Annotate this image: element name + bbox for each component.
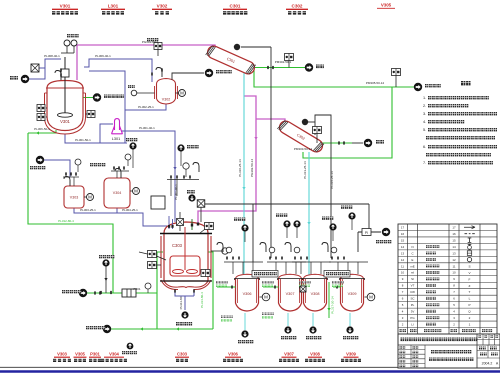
svg-text:M: M	[369, 295, 373, 300]
gauge boxes C303 right	[200, 223, 228, 277]
magenta line C302 inlet and C303 reflux	[198, 96, 285, 228]
V309 drain to centrifuge	[343, 313, 358, 339]
V301 temperature box right	[86, 111, 96, 118]
svg-text:V306: V306	[228, 352, 238, 357]
V302 vent hook	[156, 68, 162, 78]
top label C301	[223, 4, 247, 15]
V302 steam point	[128, 85, 155, 96]
svg-text:1.: 1.	[423, 96, 426, 100]
mother liquor labels between V306 V307	[262, 313, 274, 319]
svg-text:17: 17	[401, 225, 405, 229]
svg-text:4.: 4.	[423, 120, 426, 124]
notes list	[423, 96, 497, 165]
svg-text:mI: mI	[411, 271, 414, 275]
svg-text:C: C	[411, 251, 413, 255]
svg-text:PL312-80-4: PL312-80-4	[58, 219, 74, 223]
V306 inlet line	[216, 281, 236, 289]
bottom label P301	[89, 352, 101, 363]
bottom label V306	[223, 352, 243, 363]
blue line V302 bottom to pump suction	[125, 104, 166, 110]
green jacket lines C303	[157, 252, 213, 329]
blue line V303 V304 bottoms to C303	[74, 206, 167, 226]
mother liquor label under V306 line	[221, 316, 233, 322]
svg-text:PL302-25-1: PL302-25-1	[138, 105, 154, 109]
svg-text:15: 15	[401, 238, 405, 242]
svg-text:CW: CW	[410, 290, 415, 294]
pump L301	[112, 119, 123, 141]
svg-text:PI: PI	[365, 231, 368, 235]
black vacuum header	[205, 204, 369, 232]
svg-text:P: P	[468, 303, 470, 307]
green riser to scrubber	[303, 87, 392, 158]
svg-text:PM303-50-14: PM303-50-14	[294, 147, 313, 151]
C302 gauge	[302, 119, 308, 125]
tank V308	[302, 274, 328, 311]
pump P301	[122, 283, 151, 297]
svg-text:PL301-40-1: PL301-40-1	[174, 184, 178, 200]
svg-text:V305: V305	[381, 3, 392, 8]
tank V309	[339, 274, 365, 311]
svg-text:V302: V302	[162, 98, 170, 102]
svg-text:N: N	[411, 245, 413, 249]
svg-text:5.: 5.	[423, 128, 426, 132]
condenser C301	[205, 44, 256, 76]
green line C301 to scrubber header	[254, 68, 414, 87]
svg-text:VT: VT	[411, 284, 415, 288]
svg-text:10: 10	[401, 271, 405, 275]
svg-text:17: 17	[452, 225, 456, 229]
bottom label V303	[53, 352, 71, 363]
green vent line V301 to drain	[83, 97, 93, 99]
V302 agitator motor	[176, 90, 186, 97]
svg-text:PL314-80-4: PL314-80-4	[200, 292, 204, 308]
C303 vapor outlet box to header	[197, 200, 205, 222]
svg-text:PL304-25-1: PL304-25-1	[122, 208, 138, 212]
label box between V306 V307	[252, 271, 278, 278]
svg-text:C303: C303	[172, 243, 183, 248]
svg-text:PL301-50-1: PL301-50-1	[75, 138, 91, 142]
title block	[398, 334, 500, 368]
svg-text:L301: L301	[108, 4, 119, 9]
svg-text:3.: 3.	[423, 112, 426, 116]
svg-text:PM302-50-1: PM302-50-1	[275, 60, 292, 64]
cyan condensate line C302 to V308	[307, 152, 310, 277]
crystallizer C303	[160, 222, 212, 290]
svg-text:PL306-50-4: PL306-50-4	[34, 127, 50, 131]
black vacuum drop to V309	[357, 232, 359, 252]
V308 drain to centrifuge	[306, 313, 321, 339]
V306 top valve group	[217, 243, 263, 275]
distilled water group right of funnel	[167, 144, 199, 179]
svg-text:PL303-25-1: PL303-25-1	[80, 208, 96, 212]
feed label between tanks	[90, 163, 105, 166]
svg-text:M: M	[180, 91, 184, 96]
svg-text:PL316-25-14: PL316-25-14	[330, 171, 334, 189]
bottom label V309	[341, 352, 361, 363]
magenta vapor line V301 to C301	[77, 45, 215, 80]
steam heater branch	[99, 255, 114, 294]
top label V302	[152, 4, 172, 15]
svg-text:PL301-40-1: PL301-40-1	[139, 126, 155, 130]
svg-text:12: 12	[401, 258, 405, 262]
V309 top valve group	[322, 243, 368, 275]
blue steam inlet line to V301	[29, 59, 61, 79]
blue discharge line L301 to C303	[121, 131, 177, 222]
legend table	[398, 224, 497, 334]
svg-text:L: L	[469, 297, 471, 301]
vacuum meter and arrow	[358, 228, 391, 244]
svg-text:PM305-50-14: PM305-50-14	[366, 81, 385, 85]
svg-text:11: 11	[452, 264, 455, 268]
vacuum pump arrow	[172, 69, 232, 80]
navy page border	[0, 370, 500, 372]
condenser C302	[277, 119, 325, 155]
svg-text:2.: 2.	[423, 104, 426, 108]
svg-text:PL313-25-14: PL313-25-14	[303, 161, 307, 179]
cyan condensate line C301 to V306	[242, 73, 245, 276]
bottom label V308	[305, 352, 325, 363]
svg-text:PG302-50-14: PG302-50-14	[250, 159, 254, 177]
C301 gauge	[234, 44, 240, 50]
svg-text:PG301-80-1: PG301-80-1	[142, 40, 159, 44]
svg-text:V303: V303	[57, 352, 67, 357]
svg-text:S: S	[468, 264, 470, 268]
C303 feed funnel box	[151, 179, 177, 209]
black frame line above C302	[302, 115, 331, 258]
drain to centrifuge C303	[175, 289, 194, 325]
svg-text:mE: mE	[410, 264, 414, 268]
V301 level gauges left	[37, 105, 47, 121]
svg-text:V301: V301	[60, 119, 70, 124]
svg-text:C301: C301	[230, 4, 241, 9]
receiver V302	[155, 79, 178, 105]
svg-text:V302: V302	[157, 4, 168, 9]
distilled water point V304	[126, 138, 137, 168]
distilled water point near pump	[0, 0, 1, 1]
svg-text:SC: SC	[410, 297, 414, 301]
notes header	[461, 81, 471, 85]
drawing bottom border	[0, 366, 398, 368]
green line label V309	[331, 296, 335, 314]
top label L301	[101, 4, 125, 15]
V308 top valve group	[285, 243, 331, 275]
gauge box on C301 vent	[285, 54, 294, 68]
bottom label V304	[101, 352, 127, 363]
svg-text:3V: 3V	[411, 310, 415, 314]
blue inlet line to V303	[43, 160, 70, 177]
svg-text:P301: P301	[90, 352, 100, 357]
sight glass box V308	[300, 286, 306, 292]
blue line V301 top to V302	[84, 59, 152, 82]
tank V304	[104, 178, 130, 208]
gauge box on scrubber line	[392, 69, 401, 88]
top label V301	[52, 4, 78, 15]
svg-text:14: 14	[452, 245, 456, 249]
vent arrow from C301	[268, 63, 324, 71]
bottom label V305	[74, 352, 87, 363]
svg-text:V309: V309	[346, 352, 356, 357]
gauge box on C302 vent	[313, 127, 322, 144]
svg-text:L301: L301	[112, 137, 120, 141]
green line P301 suction	[86, 292, 157, 294]
C303 top nozzles and boxes	[168, 212, 199, 231]
svg-text:2004.2: 2004.2	[482, 362, 493, 366]
top label V305 partial	[377, 3, 395, 9]
scrubber arrow right	[414, 83, 441, 91]
svg-text:M: M	[88, 195, 92, 200]
svg-text:7.: 7.	[423, 161, 426, 165]
reflux note center bottom	[122, 343, 137, 355]
svg-text:V309: V309	[348, 292, 357, 296]
V304 vent hook and gauges	[111, 154, 131, 178]
svg-text:V308: V308	[311, 292, 320, 296]
V306 motor	[260, 293, 270, 301]
svg-text:13: 13	[452, 251, 456, 255]
svg-text:V308: V308	[310, 352, 320, 357]
svg-text:PL317-20-14: PL317-20-14	[331, 296, 335, 314]
blue drain lines C303 bottom to centrifuge	[175, 289, 194, 310]
distilled water points above tanks	[234, 206, 356, 243]
feed inlet arrow V303	[30, 156, 45, 170]
green vent line C302	[322, 142, 352, 144]
level gauge boxes C303 left	[139, 251, 166, 269]
svg-text:14: 14	[401, 245, 405, 249]
V301 vent swan neck	[55, 68, 61, 80]
svg-text:LI: LI	[411, 322, 414, 326]
svg-text:V307: V307	[284, 352, 294, 357]
svg-text:1: 1	[469, 323, 471, 327]
V307 inlet line	[262, 281, 279, 289]
svg-text:6.: 6.	[423, 145, 426, 149]
blue line V301 to condensate manifold	[89, 71, 125, 143]
tank V307	[277, 274, 303, 311]
bottom label C303	[175, 352, 189, 363]
pipe labels	[34, 40, 384, 309]
svg-text:V306: V306	[243, 292, 252, 296]
svg-text:V301: V301	[60, 4, 71, 9]
svg-text:V307: V307	[286, 292, 295, 296]
svg-text:12: 12	[452, 258, 456, 262]
svg-text:T: T	[469, 290, 471, 294]
tank V306	[234, 274, 260, 311]
V308 inlet line	[299, 281, 311, 289]
svg-text:V303: V303	[70, 196, 78, 200]
svg-text:11: 11	[401, 264, 404, 268]
svg-text:PL309-40-1: PL309-40-1	[95, 54, 111, 58]
svg-text:V304: V304	[109, 352, 119, 357]
green drain line V301 left	[28, 130, 56, 135]
V301 vent gauges	[61, 34, 79, 53]
green vent line C301 to atmosphere	[253, 67, 305, 69]
svg-text:10: 10	[452, 271, 456, 275]
V303 vent hook and gauges	[63, 159, 81, 186]
black header drop to V306	[252, 204, 254, 262]
mother liquor makeup arrow	[62, 289, 100, 297]
bottom label V307	[279, 352, 299, 363]
svg-text:2: 2	[469, 316, 471, 320]
vent arrow from C302	[339, 139, 384, 147]
steam inlet arrow V301	[10, 75, 29, 83]
svg-text:PL311-80: PL311-80	[179, 296, 183, 309]
V309 inlet line	[332, 281, 344, 289]
svg-text:C302: C302	[292, 4, 303, 9]
green wash line V309	[327, 282, 330, 318]
svg-text:F: F	[469, 277, 471, 281]
V306 drain to centrifuge	[238, 313, 253, 343]
svg-text:Z: Z	[469, 284, 471, 288]
svg-text:16: 16	[452, 232, 456, 236]
blue line V301 bottom to pump L301	[65, 124, 127, 143]
steam valve box	[31, 64, 39, 72]
svg-text:E: E	[412, 258, 414, 262]
V302 feed gauge box	[147, 38, 162, 56]
svg-text:13: 13	[401, 251, 405, 255]
V307 top valve group	[260, 243, 306, 275]
svg-text:P301: P301	[133, 287, 140, 291]
svg-text:15: 15	[452, 238, 456, 242]
svg-text:M: M	[264, 295, 268, 300]
green mother liquor return line	[110, 327, 213, 330]
svg-text:SI: SI	[411, 277, 414, 281]
svg-text:PL308-40-1: PL308-40-1	[44, 54, 60, 58]
drain arrow V301 right	[93, 93, 124, 101]
svg-text:V304: V304	[113, 191, 121, 195]
top label C302	[286, 4, 308, 15]
label box between V308 V309	[324, 271, 350, 278]
V307 drain to centrifuge	[281, 313, 296, 339]
feed point C303	[187, 190, 196, 202]
svg-text:PL: PL	[411, 303, 415, 307]
mother liquor return arrow	[86, 325, 111, 333]
tank V303	[64, 186, 84, 208]
V303 motor	[84, 194, 94, 201]
reactor V301	[45, 57, 86, 134]
V309 motor	[365, 293, 375, 301]
svg-text:PL310-25-14: PL310-25-14	[238, 159, 242, 177]
green main cooling loop left	[28, 133, 113, 293]
svg-text:16: 16	[401, 232, 405, 236]
black line C301 gauge to header drop	[241, 47, 271, 258]
svg-text:V305: V305	[75, 352, 85, 357]
V304 motor	[130, 188, 140, 195]
svg-text:M: M	[134, 189, 138, 194]
svg-text:C303: C303	[177, 352, 188, 357]
